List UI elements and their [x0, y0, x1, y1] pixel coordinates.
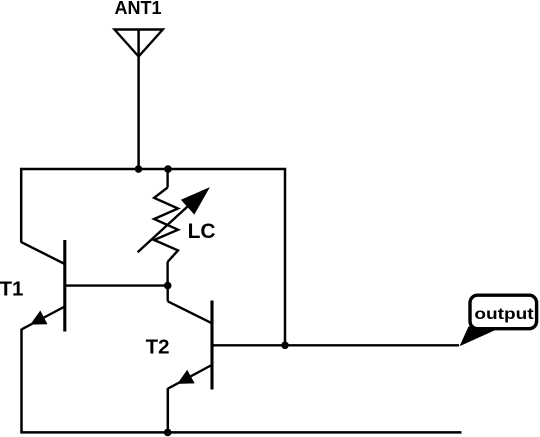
- output bubble tail: [460, 327, 500, 347]
- variable inductor LC: [138, 168, 193, 286]
- svg-text:T1: T1: [0, 278, 23, 301]
- antenna ANT1: [115, 30, 163, 57]
- transistor T1: [22, 240, 65, 332]
- transistor T2: [168, 301, 212, 390]
- svg-text:LC: LC: [188, 220, 216, 243]
- node LC bottom / T1 base / T2 collector: [164, 282, 172, 290]
- wire T2 emitter vertical: [167, 388, 170, 432]
- wire T1 base: [65, 284, 168, 286]
- node LC top junction: [164, 165, 172, 173]
- wire bottom horizontal: [20, 431, 461, 434]
- svg-text:ANT1: ANT1: [114, 0, 161, 18]
- wire antenna lead: [137, 30, 140, 170]
- LC adjust arrowhead: [181, 187, 210, 215]
- output bubble: [470, 295, 537, 329]
- wire T1 collector diagonal: [21, 242, 65, 264]
- svg-text:T2: T2: [146, 336, 170, 359]
- node T2 base / right vertical: [281, 342, 289, 350]
- svg-text:output: output: [474, 305, 533, 323]
- node bottom wire / T2 emitter: [164, 429, 172, 437]
- wire left vertical + top horizontal + right vertical: [21, 169, 285, 345]
- wire T2 collector diagonal: [168, 301, 211, 323]
- node antenna junction: [135, 165, 143, 173]
- wire T2 base to output: [212, 344, 459, 346]
- wire T2 collector stub: [166, 285, 168, 302]
- wire T1 emitter vertical: [20, 329, 23, 433]
